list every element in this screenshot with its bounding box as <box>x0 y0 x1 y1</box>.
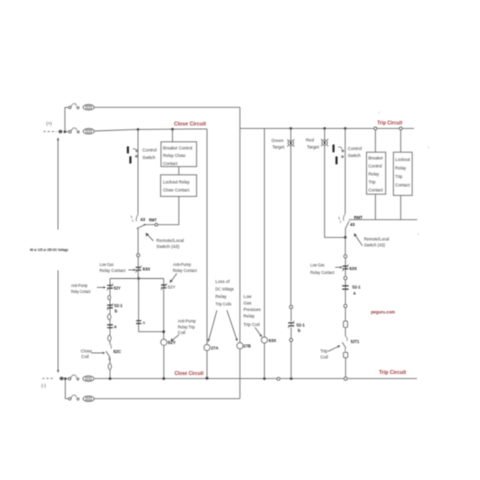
svg-text:Remote/Local: Remote/Local <box>156 238 184 243</box>
svg-text:Trip: Trip <box>395 174 403 179</box>
svg-text:Loss of: Loss of <box>215 279 230 284</box>
contact 63X low gas close <box>135 266 141 273</box>
svg-text:Breaker: Breaker <box>368 156 383 161</box>
svg-text:Contact: Contact <box>163 161 178 166</box>
box lockout relay close contact <box>161 175 197 197</box>
box lockout relay trip contact <box>393 152 412 195</box>
label control switch trip <box>348 146 362 158</box>
node junctions on trip bus <box>290 127 347 130</box>
arrow DC voltage upper <box>57 137 59 229</box>
label remote/local switch trip <box>364 237 389 248</box>
svg-text:DC Voltage: DC Voltage <box>215 287 234 292</box>
scan speck <box>378 112 380 114</box>
node terminal ring trip column 3 <box>344 304 347 307</box>
node junction red target tie <box>344 236 347 239</box>
node (+) terminal <box>58 130 62 133</box>
svg-text:Trip Coil: Trip Coil <box>243 322 259 327</box>
box breaker control relay trip contact <box>367 152 386 194</box>
wire bottom return bus <box>94 378 417 380</box>
svg-text:Relay Trip: Relay Trip <box>178 324 195 329</box>
svg-text:Low Gas: Low Gas <box>100 262 115 267</box>
svg-text:Close Contact: Close Contact <box>163 188 190 193</box>
label loss of dc voltage relay trip coils <box>215 279 234 307</box>
wire trip bus <box>240 127 414 129</box>
svg-text:Coil: Coil <box>178 330 186 335</box>
node 43 contact ring close <box>155 223 158 226</box>
label green target <box>271 138 285 150</box>
label red target <box>306 138 320 150</box>
svg-text:Relay Contact: Relay Contact <box>310 270 335 275</box>
svg-text:Control: Control <box>368 164 382 169</box>
fuse F4 (-) lower branch <box>83 396 94 402</box>
svg-text:Relay: Relay <box>395 165 407 170</box>
wire 52Y coil to bottom bus <box>163 345 165 378</box>
label anti-pump relay contact left <box>71 283 91 294</box>
contact 63X trip <box>342 265 348 272</box>
svg-text:RMT: RMT <box>149 218 157 223</box>
label anti-pump relay trip coil <box>178 319 196 336</box>
wire 27A column (close bus drop) <box>206 129 208 345</box>
label low gas pressure relay trip coil <box>243 294 261 327</box>
switch 43 remote/local trip <box>339 214 350 229</box>
wire red target column to 43 junction <box>325 145 346 237</box>
wire trip column to bottom bus <box>345 358 347 379</box>
svg-text:Switch (43): Switch (43) <box>156 244 180 249</box>
svg-text:(-): (-) <box>41 383 46 388</box>
svg-text:Close Circuit: Close Circuit <box>175 371 204 377</box>
svg-text:27A: 27A <box>211 345 219 350</box>
contact 52Y anti-pump left <box>107 284 113 291</box>
wire (+) riser to top branch <box>65 107 69 131</box>
switch knife close branch <box>66 128 79 133</box>
svg-text:Trip Coils: Trip Coils <box>215 302 232 307</box>
arrow to 52Y right <box>170 274 177 283</box>
svg-text:Close Circuit: Close Circuit <box>174 122 206 128</box>
svg-text:27B: 27B <box>243 343 250 348</box>
svg-text:(+): (+) <box>46 121 52 126</box>
svg-text:Anti-Pump: Anti-Pump <box>71 283 88 288</box>
svg-text:Lockout Relay: Lockout Relay <box>163 179 190 184</box>
node junction close bus / control column <box>137 128 140 131</box>
arrow to 43 trip <box>354 233 363 246</box>
wire right anti-pump column <box>163 279 165 340</box>
wire close bus to box1 <box>172 129 174 142</box>
wire trip column below 43 <box>344 237 346 254</box>
label S2-1 b green column <box>296 323 305 334</box>
wire control column to 63X <box>137 257 139 278</box>
svg-text:48 or 125 or 250 DC Voltage: 48 or 125 or 250 DC Voltage <box>30 248 69 252</box>
wire trip column seg5 <box>344 328 346 337</box>
svg-text:Anti-Pump: Anti-Pump <box>173 262 191 267</box>
label S2-1 a trip <box>352 284 361 295</box>
contact S2-1 b left <box>107 304 113 311</box>
coil 63X low gas pressure <box>261 337 267 343</box>
svg-text:Relay Contact: Relay Contact <box>71 289 91 294</box>
svg-text:52Y: 52Y <box>168 284 176 289</box>
fuse F3 (-) top branch <box>83 376 94 382</box>
switch knife (-) top branch <box>67 375 79 380</box>
svg-text:52Y: 52Y <box>114 285 121 290</box>
wire trip control column upper <box>344 128 346 213</box>
control switch CS close <box>128 146 138 163</box>
wire trip bus to box3 <box>374 130 376 152</box>
node terminal ring on bottom bus trip <box>344 377 347 380</box>
node oval terminal <box>108 364 111 370</box>
svg-text:Coil: Coil <box>320 354 328 359</box>
contact S2-1 b green column <box>288 321 295 328</box>
svg-text:Low Gas: Low Gas <box>310 262 325 267</box>
svg-text:Relay Close: Relay Close <box>163 153 186 158</box>
svg-text:RMT: RMT <box>354 215 363 220</box>
svg-text:Relay Contact: Relay Contact <box>173 268 198 273</box>
wire (-) dashed lead <box>42 377 54 379</box>
svg-text:63X: 63X <box>269 338 277 343</box>
svg-text:Low: Low <box>243 294 252 299</box>
arrow to 43 switch close <box>146 233 154 241</box>
wire 63X coil column <box>263 128 265 337</box>
wire green target column upper <box>290 128 292 140</box>
arrow to 27B coil <box>227 310 238 341</box>
node junction close bus / relay boxes <box>171 128 174 131</box>
wire green target column <box>290 146 292 306</box>
scan speck <box>428 147 430 149</box>
wire 27B return along bottom <box>94 398 240 400</box>
arrow to 27A coil <box>208 310 217 342</box>
lamp red target <box>321 139 328 146</box>
svg-text:Lockout: Lockout <box>395 157 411 162</box>
svg-text:Relay: Relay <box>243 313 255 318</box>
switch knife top (+) branch <box>69 104 79 109</box>
wire (-) drop to lower branch <box>65 379 68 399</box>
arrow to 63X coil <box>255 327 262 337</box>
contact 52Y anti-pump right <box>161 283 167 290</box>
svg-text:Gas: Gas <box>243 300 252 305</box>
arrow DC voltage lower <box>57 270 59 373</box>
svg-text:Trip: Trip <box>320 349 328 354</box>
label low gas relay contact trip <box>310 262 335 275</box>
switch 52C close coil <box>106 344 111 361</box>
arrow to 52T1 <box>328 345 340 351</box>
svg-text:Trip Circuit: Trip Circuit <box>379 370 406 376</box>
node oval terminal <box>108 314 111 320</box>
wire mid anti-pump column <box>139 279 164 332</box>
svg-text:Relay: Relay <box>215 294 227 299</box>
wire box4 to RMT line <box>400 195 402 219</box>
wire 27A column lower <box>206 351 208 379</box>
svg-text:Coil: Coil <box>81 354 89 359</box>
arrow to 52Y left <box>97 286 106 288</box>
node junction anti-pump branch <box>137 277 140 280</box>
wire top feed to trip riser <box>94 106 240 108</box>
svg-text:Switch: Switch <box>142 155 155 160</box>
wire trip feed riser lower / 27B return <box>239 349 241 399</box>
label remote/local switch close <box>156 238 184 249</box>
control switch CS trip <box>334 145 344 165</box>
coil 27B loss of dc voltage <box>237 343 243 349</box>
node oval terminal <box>108 296 111 300</box>
svg-text:Remote/Local: Remote/Local <box>364 237 389 242</box>
wire box2 drop to 43 contact <box>144 196 179 224</box>
svg-text:Trip: Trip <box>368 180 376 185</box>
wire green column mid <box>290 309 292 379</box>
arrow to 63X trip <box>335 266 342 268</box>
wire control column upper <box>137 129 139 214</box>
node junctions on bottom bus <box>109 377 293 380</box>
svg-text:b: b <box>298 328 301 333</box>
wire trip column seg3 <box>344 280 346 305</box>
wire trip column <box>344 258 346 277</box>
svg-text:43: 43 <box>350 222 355 227</box>
svg-text:Pressure: Pressure <box>243 307 261 312</box>
wire (+) dashed lead <box>44 131 57 133</box>
coil 27A loss of dc voltage <box>204 344 210 350</box>
wire trip bus to box4 <box>400 130 402 152</box>
arrow to 63X close <box>128 269 136 271</box>
wire close bus <box>94 129 207 131</box>
switch knife (-) lower branch <box>69 395 79 400</box>
node terminal ring on bus <box>277 377 280 380</box>
svg-text:Target: Target <box>307 144 320 149</box>
svg-text:Control: Control <box>142 148 156 153</box>
node terminal ring trip column 2 <box>344 276 347 279</box>
svg-text:52C: 52C <box>113 349 122 354</box>
contact S2-1 a trip <box>342 286 348 289</box>
svg-text:Relay: Relay <box>368 172 380 177</box>
node terminal ring green column lower <box>290 338 293 341</box>
node (-) terminal <box>60 377 67 380</box>
svg-text:Anti-Pump: Anti-Pump <box>178 319 196 324</box>
svg-text:Red: Red <box>306 138 315 143</box>
svg-text:63X: 63X <box>143 266 151 271</box>
node oval terminal <box>108 335 111 341</box>
label low gas relay contact close <box>100 262 127 273</box>
switch 52T1 trip coil <box>342 336 347 351</box>
wire anti-pump branch bar <box>110 278 164 280</box>
svg-text:S2-1: S2-1 <box>114 303 123 308</box>
svg-text:52T1: 52T1 <box>351 339 360 344</box>
wire control column mid <box>137 228 139 254</box>
svg-text:Target: Target <box>272 145 285 150</box>
svg-text:S2-1: S2-1 <box>296 323 305 328</box>
wire left close-coil column <box>109 279 111 379</box>
node terminal rings on trip bus <box>374 127 402 130</box>
scan speck <box>418 233 420 235</box>
svg-text:Contact: Contact <box>395 183 410 188</box>
label anti-pump relay contact right <box>173 262 198 273</box>
svg-text:Trip Circuit: Trip Circuit <box>377 121 402 127</box>
svg-text:43: 43 <box>140 217 145 222</box>
node terminal ring <box>137 254 140 257</box>
svg-text:S2-1: S2-1 <box>352 284 361 289</box>
svg-text:Control: Control <box>348 146 362 151</box>
contact a mid <box>136 321 141 324</box>
svg-text:Close: Close <box>81 348 93 353</box>
lamp green target <box>287 139 294 146</box>
arrow to 52C <box>91 352 105 354</box>
wire 63X coil to bottom bus <box>263 343 265 379</box>
wire RMT contact line trip <box>349 219 417 221</box>
label S2-1 b left <box>114 303 123 314</box>
wire trip control column to red tie <box>344 228 346 237</box>
svg-text:Breaker Control: Breaker Control <box>163 146 192 151</box>
wire box3 to RMT line <box>374 194 376 220</box>
wire red target column upper <box>324 128 326 140</box>
label close coil <box>81 348 93 359</box>
svg-text:b: b <box>115 309 118 314</box>
svg-text:Contact: Contact <box>368 188 383 193</box>
fuse F2 close branch <box>83 129 94 135</box>
node terminal block trip column lower <box>343 352 347 357</box>
box breaker control relay close contact <box>161 142 197 167</box>
switch 43 remote/local close <box>131 215 145 229</box>
label trip coil <box>320 349 328 360</box>
svg-text:peguru.com: peguru.com <box>371 309 395 314</box>
svg-text:63X: 63X <box>349 266 357 271</box>
svg-text:Green: Green <box>271 138 284 143</box>
arrow to 52Y coil <box>171 335 179 342</box>
wire box1 to box2 link <box>178 167 180 175</box>
wire trip column seg4 <box>344 308 346 321</box>
svg-text:Relay Contact: Relay Contact <box>100 268 127 273</box>
wire long trip feed riser <box>239 107 241 342</box>
node terminal ring green column <box>290 305 293 308</box>
node terminal block trip column <box>343 321 347 327</box>
label control switch close <box>142 148 156 160</box>
coil 52Y anti-pump <box>161 339 167 345</box>
svg-text:Switch (43): Switch (43) <box>364 242 386 247</box>
node junction anti-pump rejoin <box>162 330 165 333</box>
contact a left <box>107 325 113 328</box>
node terminal ring trip column <box>344 255 347 258</box>
fuse F1 top (+) branch <box>83 105 94 111</box>
svg-text:Switch: Switch <box>348 153 361 158</box>
